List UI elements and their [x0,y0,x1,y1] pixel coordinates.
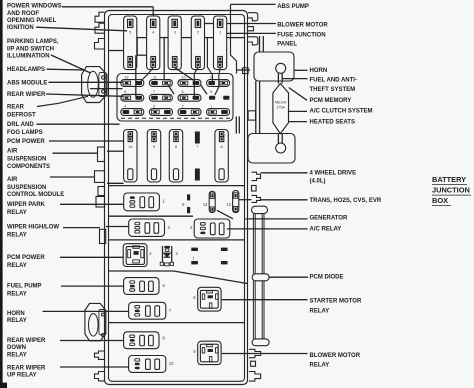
relay 6 (starter motor) [198,287,221,311]
wire jog fuse5 [136,38,138,56]
svg-text:11: 11 [153,75,157,79]
relay 2 [194,219,230,238]
wire tab y151 [107,150,123,152]
cartridge fuse 7 [195,132,200,181]
wire tab y183 [107,182,124,184]
svg-text:RELAY: RELAY [310,309,330,315]
svg-text:CONTROL MODULE: CONTROL MODULE [7,192,64,198]
wire fuse-junction inner [227,32,276,34]
svg-text:RELAY: RELAY [7,352,27,358]
leader starter motor relay [222,299,308,301]
svg-text:FUSE JUNCTION: FUSE JUNCTION [277,33,325,39]
mini fuse 7 [149,90,172,101]
wire fuse4 to mini row1 [141,68,153,81]
left edge tab y196 [96,197,105,208]
cartridge fuse 9 [147,130,160,183]
top-left step tab C [95,39,105,50]
scan edge strip [0,0,3,388]
svg-text:PCM POWER: PCM POWER [7,255,45,261]
svg-text:AIR: AIR [7,177,18,183]
relay 1 (wiper park) [124,193,160,211]
leader 4 wheel drive [261,172,308,174]
svg-text:TRANS, HO2S, CVS, EVR: TRANS, HO2S, CVS, EVR [310,198,382,204]
junction box outer case [105,11,248,385]
svg-text:HEATED SEATS: HEATED SEATS [310,119,355,125]
maxi fuse 2 [191,16,204,70]
right hook y371 [249,372,261,382]
svg-text:BLOWER MOTOR: BLOWER MOTOR [310,353,361,359]
leader fuel anti-theft [282,78,307,80]
fuse bar pair left [191,248,198,251]
svg-text:ABS PUMP: ABS PUMP [277,4,309,10]
svg-text:RELAY: RELAY [7,291,27,297]
maxi fuse 3 [168,16,181,70]
mega fuse body [273,84,289,134]
svg-text:I/P AND SWITCH: I/P AND SWITCH [7,46,54,52]
left edge tab y186 [98,187,105,196]
leader horn relay [43,310,129,312]
leader a/c clutch [289,110,307,112]
mini fuse 10 [178,75,201,86]
wire panel feed x236 [235,116,237,133]
leader blower motor relay [222,353,308,355]
maxi fuse 4 [147,16,160,70]
right edge tab y68 [243,68,249,74]
panel link wires mid [255,81,257,134]
leader drl fog lamps [37,123,120,125]
relay 10 (rear wiper up) [129,356,166,373]
svg-text:175A: 175A [276,106,285,110]
scan corner blob [0,383,7,388]
svg-text:REAR WIPER: REAR WIPER [7,338,46,344]
svg-text:3: 3 [153,104,155,108]
mega fuse stem top [277,73,279,83]
left connector 2 bracket [99,310,106,336]
svg-text:AIR: AIR [7,149,18,155]
top-left step tab B [95,23,105,33]
left edge tab y147 [98,147,105,162]
wire bus drop x207.4 [207,38,212,83]
right tab 4WD [252,172,261,180]
bottom-left hook B [95,372,105,381]
wire mini r1c3 to r2c3 [201,85,208,94]
divider y271.8 + pcm diode diagonal [108,270,174,272]
wire headlamps stub [108,50,124,52]
divider y216 [108,215,193,217]
svg-text:RELAY: RELAY [7,210,27,216]
leader air susp components [53,152,99,154]
svg-text:6: 6 [182,90,184,94]
wire fuse1 to mini fuse5 [215,68,220,95]
fuse 13 [233,191,239,213]
relay 5 (fuel pump) [124,278,159,295]
svg-text:REAR WIPER: REAR WIPER [7,92,46,98]
mini fuse 9 [207,75,230,86]
relay 7 (horn) [129,302,166,319]
svg-text:8: 8 [124,90,126,94]
top-left step tab A [95,12,105,22]
svg-text:RELAY: RELAY [7,232,27,238]
mini fuse 1 [207,104,230,115]
right pill PCM diode [252,274,269,281]
svg-text:14: 14 [203,202,208,207]
svg-text:4 WHEEL DRIVE: 4 WHEEL DRIVE [310,170,357,176]
svg-text:AND ROOF: AND ROOF [7,11,39,17]
svg-text:OPENING PANEL: OPENING PANEL [7,18,57,24]
fuse bars 5 [187,194,190,200]
mega fuse bottom terminal [276,143,286,153]
svg-text:(4.0L): (4.0L) [310,178,326,184]
wire fuse13 to trans tab [239,199,252,201]
wire bus drop x164.2 [163,38,165,80]
maxi fuse 1 [214,16,227,70]
svg-text:COMPONENTS: COMPONENTS [7,164,50,170]
right notch y361 [251,361,256,366]
leader pcm diode [269,276,308,278]
left connector 1 housing [82,67,107,103]
svg-text:10: 10 [128,144,133,149]
left connector 2 oval [89,314,99,337]
wire blower inner [205,23,214,25]
svg-text:HORN: HORN [7,311,25,317]
left connector 1 oval [88,71,99,97]
right pill y206 [252,206,268,213]
wire bus drop x135.8 [135,55,137,96]
svg-text:STARTER MOTOR: STARTER MOTOR [310,299,362,305]
mega fuse stem bottom [277,134,279,144]
leader rear defrost [37,96,88,106]
left connector 1 bracket [99,73,106,97]
wire abs-pump drop [231,4,237,73]
mini fuse 5 [209,90,229,100]
svg-text:HEADLAMPS: HEADLAMPS [7,67,45,73]
wire tab to relay3 [106,226,129,228]
mini fuse 2 [178,104,201,115]
leader ignition [36,27,127,31]
svg-text:4: 4 [124,104,126,108]
leader parking lamps [51,55,91,73]
svg-text:PCM DIODE: PCM DIODE [310,275,344,281]
svg-text:13: 13 [226,202,231,207]
relay 8 (rear wiper down) [124,332,159,349]
wire bus y37.6 [137,37,147,39]
mini fuse 4 [121,104,144,115]
upper right panel [254,52,294,81]
left edge tab y229 (wiper hi/lo) [100,229,106,243]
right tab TRANS [252,195,261,202]
svg-text:10: 10 [182,75,186,79]
svg-text:BATTERY: BATTERY [432,175,466,184]
cartridge fuse 6 [215,130,228,183]
svg-text:FUEL AND ANTI-: FUEL AND ANTI- [310,78,357,84]
leader a/c relay [227,228,308,230]
svg-text:2: 2 [182,104,184,108]
svg-text:10: 10 [169,361,174,366]
right hook tab y12.7 [248,13,258,21]
leader rear wiper down relay [60,340,124,342]
svg-text:REAR: REAR [7,105,25,111]
svg-text:PCM MEMORY: PCM MEMORY [310,98,352,104]
svg-text:9: 9 [210,75,212,79]
leader pcm memory [289,88,307,101]
svg-text:IGNITION: IGNITION [7,25,34,31]
leader wiper high/low relay [63,227,100,229]
leader air susp control module [50,176,95,178]
divider y239.9 [108,239,245,241]
right legs lower [252,281,254,339]
wire fuse3 to mini row1 [175,68,194,81]
leader power windows [62,6,153,8]
right hook tab y26.6 [248,27,254,31]
mini fuse 8 [121,90,144,101]
leader wiper park relay [60,203,124,205]
wire connector row2 feed [90,88,123,90]
svg-text:ILLUMINATION: ILLUMINATION [7,53,50,59]
divider y185.6 [108,185,245,187]
divider y322.6 [108,322,245,324]
leader headlamps [47,68,84,71]
panel dashed edge [121,117,231,119]
maxi fuse 5 [124,16,137,70]
leader abs module [49,81,123,83]
svg-text:POWER WINDOWS: POWER WINDOWS [7,4,62,10]
svg-text:MEGA: MEGA [275,100,287,104]
svg-text:BLOWER MOTOR: BLOWER MOTOR [277,23,328,29]
right hook y349 [249,349,261,357]
svg-text:PANEL: PANEL [277,42,297,48]
lower right panel [248,134,295,164]
right edge small tab y111 [248,111,255,120]
wire mini r1c2 to r2c2 [168,85,174,94]
svg-text:FOG LAMPS: FOG LAMPS [7,130,43,136]
relay 3 (wiper high/low) [129,219,165,236]
wire power-windows drop [152,7,154,16]
mini fuse panel [117,74,233,122]
svg-text:DRL AND: DRL AND [7,122,34,128]
leader pcm power relay [60,256,124,258]
leader fuel pump relay [61,285,124,287]
right pill y339 [252,339,269,346]
svg-text:SUSPENSION: SUSPENSION [7,157,46,163]
svg-text:RELAY: RELAY [310,363,330,369]
fuse bar pair right [221,248,228,251]
mini fuse 6 [178,90,201,101]
svg-text:12: 12 [124,75,128,79]
svg-text:WIPER PARK: WIPER PARK [7,202,46,208]
svg-text:HORN: HORN [310,68,328,74]
wire horn inner [237,69,250,71]
svg-text:1: 1 [210,104,212,108]
svg-text:ABS MODULE: ABS MODULE [7,80,47,86]
left connector 2 housing [85,303,106,340]
fuse 14 [209,191,215,212]
svg-text:5: 5 [210,90,212,94]
right hook tab y36.8 [248,37,258,45]
mini fuse 3 [149,104,172,115]
svg-text:BOX: BOX [432,196,448,205]
leader rear wiper [46,94,123,96]
mini fuse 12 [121,75,144,86]
svg-text:THEFT SYSTEM: THEFT SYSTEM [310,87,356,93]
svg-text:GENERATOR: GENERATOR [310,215,348,221]
wire fuse2 to mini fuse6 [194,68,198,97]
svg-text:WIPER HIGH/LOW: WIPER HIGH/LOW [7,225,59,231]
svg-text:PARKING LAMPS,: PARKING LAMPS, [7,39,59,45]
relay 4 (pcm power) [123,244,147,267]
leader heated seats [289,121,307,123]
svg-text:FUEL PUMP: FUEL PUMP [7,283,42,289]
svg-text:A/C RELAY: A/C RELAY [310,226,342,232]
svg-text:RELAY: RELAY [7,318,27,324]
svg-text:DEFROST: DEFROST [7,113,36,119]
panel link wires upper [259,36,261,52]
junction box inner case [109,15,245,382]
leader trans ho2s [261,199,308,201]
diode 2 (pcm diode) [160,246,173,266]
relay 9 (blower motor) [198,341,221,364]
leader pcm power [49,140,124,142]
svg-text:DOWN: DOWN [7,345,26,351]
bottom-left hook A [95,351,105,359]
right notch y185 [252,186,257,192]
svg-text:A/C CLUTCH SYSTEM: A/C CLUTCH SYSTEM [310,109,373,115]
mega fuse 175A top terminal [276,63,286,73]
left edge tab y171 [95,171,105,183]
leader rear wiper up relay [60,366,129,368]
svg-text:7: 7 [153,90,155,94]
svg-text:PCM POWER: PCM POWER [7,139,45,145]
svg-text:UP RELAY: UP RELAY [7,373,37,379]
leader horn [294,69,308,71]
cartridge fuse 10 [124,130,137,183]
svg-text:SUSPENSION: SUSPENSION [7,185,46,191]
svg-text:JUNCTION: JUNCTION [432,186,470,195]
svg-text:REAR WIPER: REAR WIPER [7,365,46,371]
leader abs pump [231,3,276,5]
cartridge fuse 8 [169,130,182,183]
right legs upper [252,214,254,274]
svg-text:RELAY: RELAY [7,263,27,269]
wire fuse14 to relay2 [217,210,233,219]
leader generator [246,218,308,220]
mini fuse 11 [149,75,172,86]
